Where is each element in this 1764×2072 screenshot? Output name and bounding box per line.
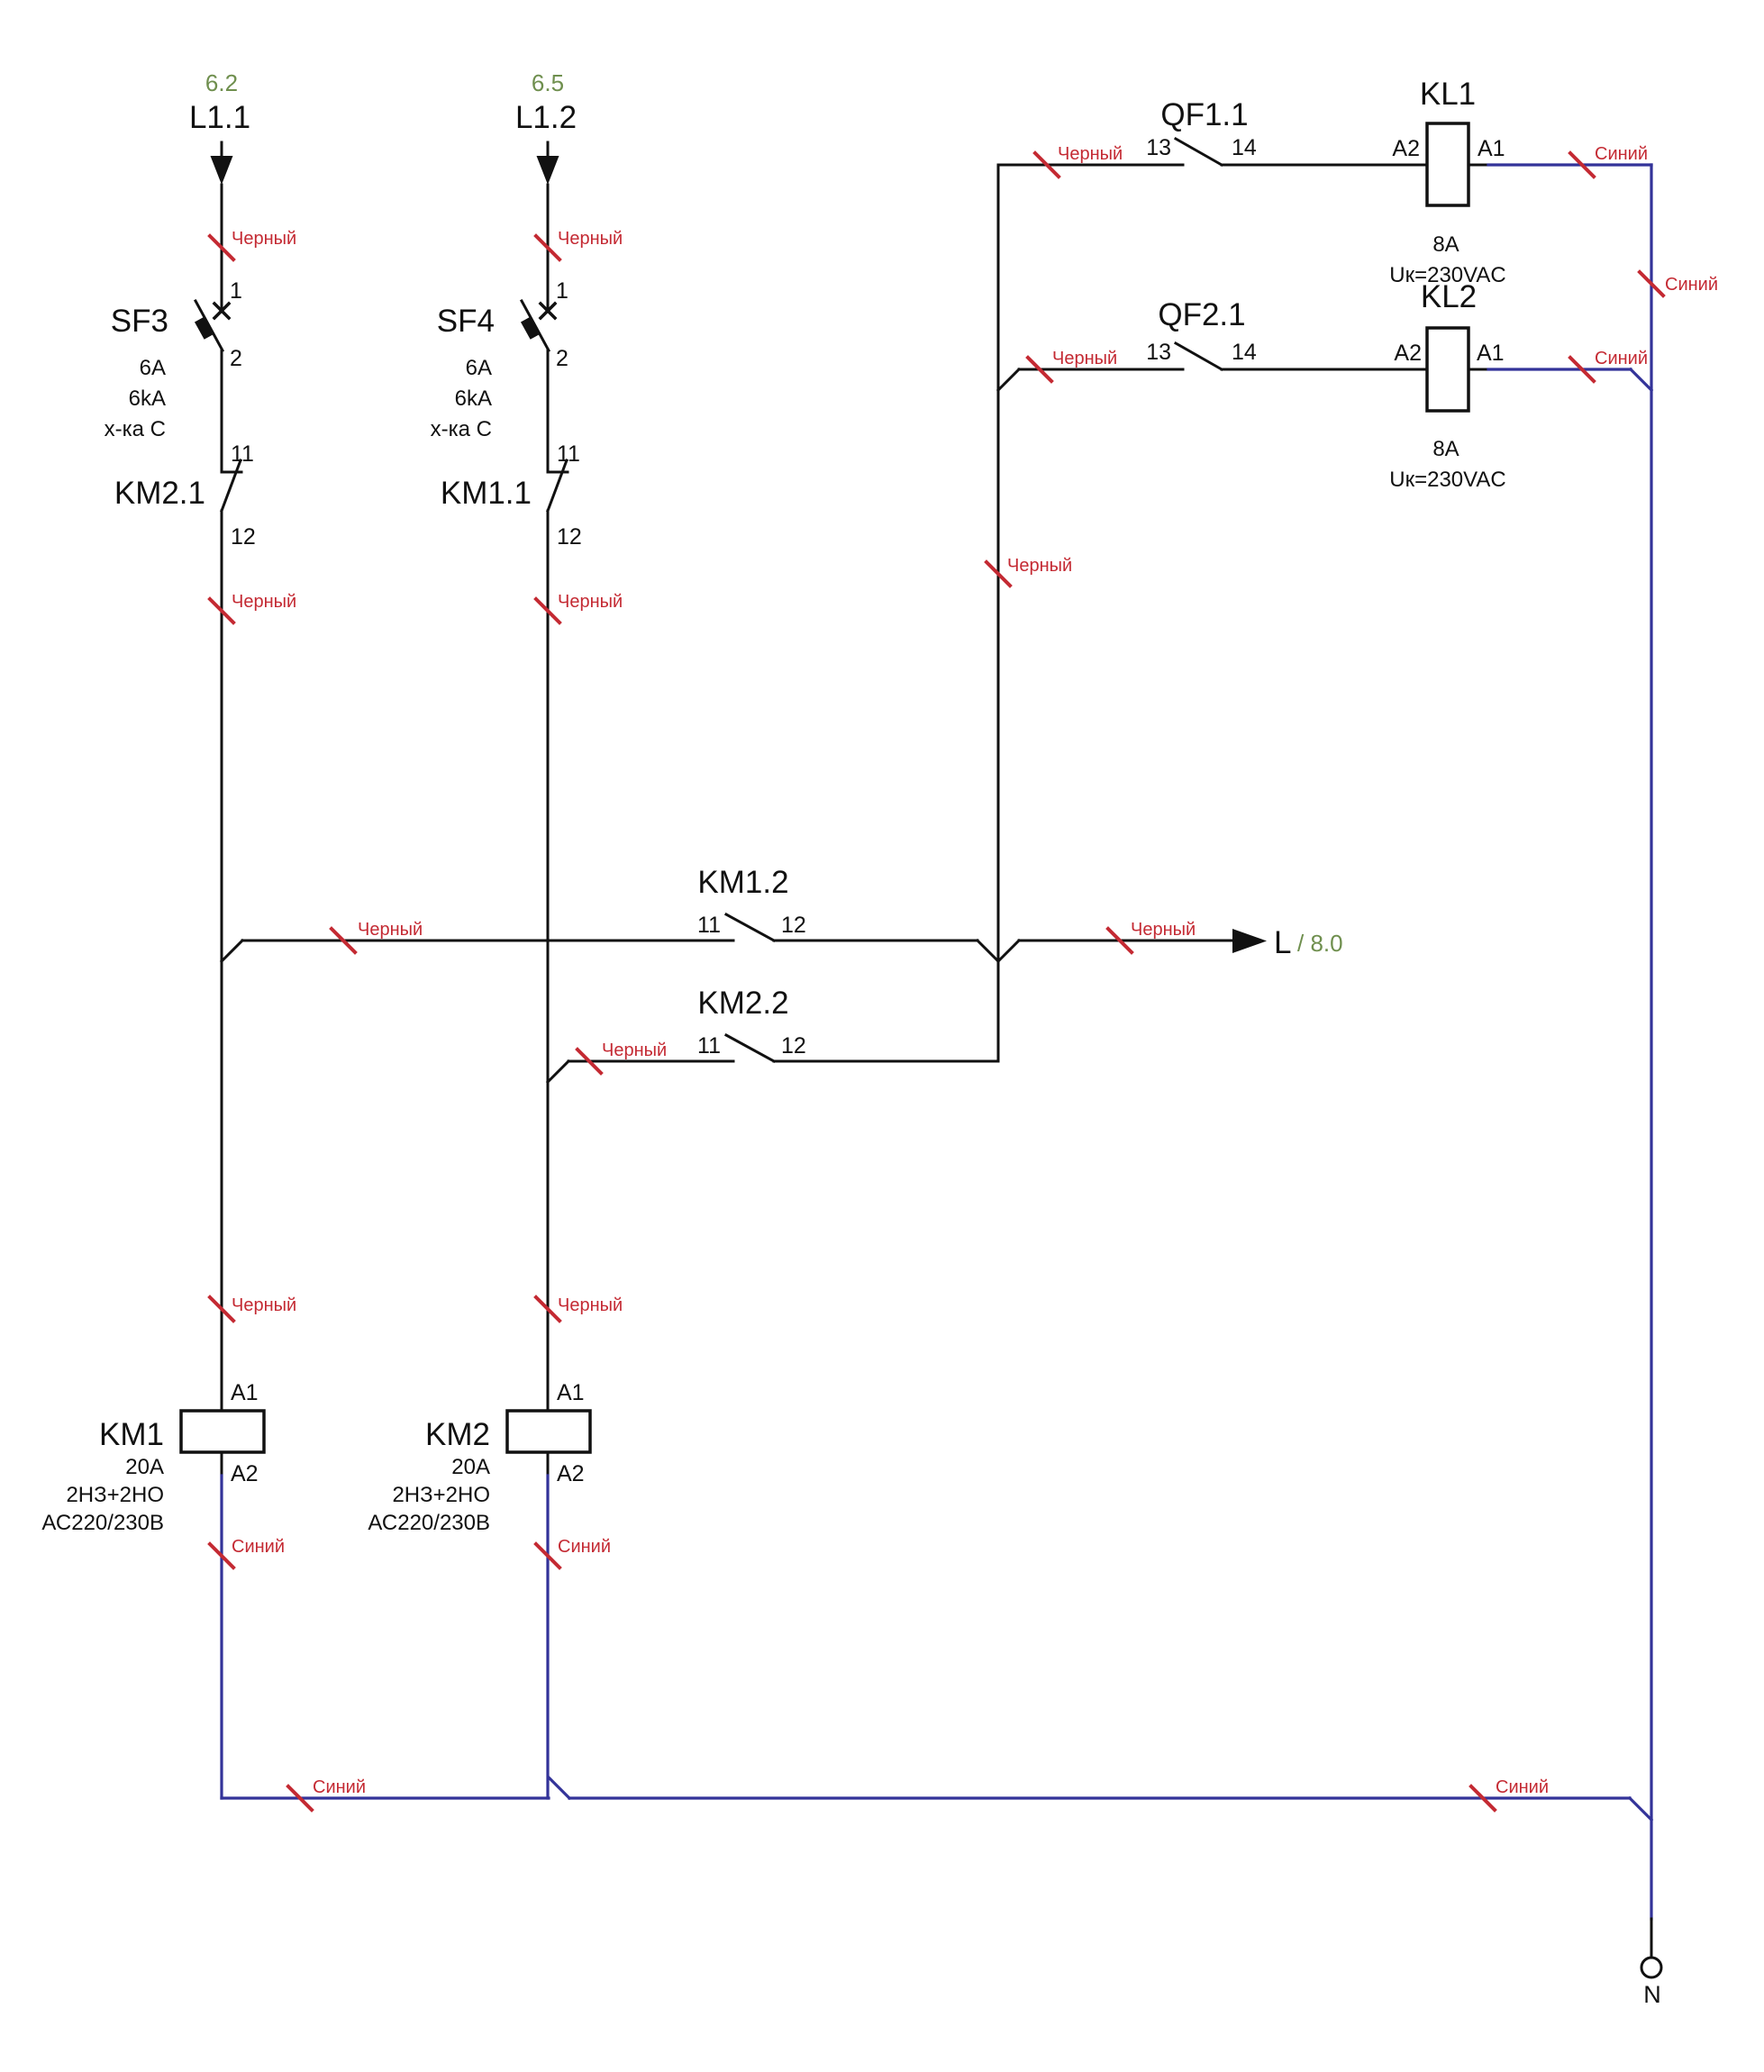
wire marker Черный (above KM2 coil)	[536, 1295, 623, 1321]
circuit breaker SF3	[195, 301, 229, 350]
NC contact KM2.1	[222, 460, 241, 511]
svg-text:6kA: 6kA	[455, 386, 492, 411]
value labels KL1	[1389, 232, 1505, 287]
wire marker Черный (KM2.2 left)	[577, 1041, 667, 1073]
svg-text:Синий: Синий	[1595, 144, 1648, 164]
wire KM1.1 down to KM2 coil	[547, 511, 550, 1411]
N bus left segment (blue)	[222, 1796, 549, 1799]
wire junction branch2 to KM2.2	[548, 1061, 568, 1082]
wire marker Черный (above KM1 coil)	[210, 1295, 296, 1321]
svg-text:A2: A2	[1392, 136, 1420, 161]
svg-text:A2: A2	[1394, 341, 1422, 366]
svg-text:A1: A1	[231, 1380, 259, 1405]
svg-text:A1: A1	[1478, 136, 1505, 161]
value labels SF3	[105, 356, 166, 441]
wire KM2.2 left segment	[568, 1060, 733, 1063]
N terminal circle	[1641, 1958, 1661, 1977]
value labels KM2	[368, 1455, 490, 1535]
value labels KL2	[1389, 437, 1505, 492]
svg-text:A2: A2	[231, 1461, 259, 1486]
svg-text:/ 8.0: / 8.0	[1297, 930, 1343, 957]
svg-text:A2: A2	[557, 1461, 585, 1486]
svg-text:12: 12	[231, 524, 256, 550]
svg-text:Черный: Черный	[232, 592, 296, 612]
circuit breaker SF4	[521, 301, 555, 350]
svg-text:6A: 6A	[466, 356, 492, 380]
svg-text:Черный: Черный	[1058, 144, 1123, 164]
svg-text:Черный: Черный	[1052, 349, 1117, 368]
svg-text:12: 12	[781, 1033, 806, 1059]
svg-text:Синий: Синий	[558, 1537, 611, 1557]
svg-text:Синий: Синий	[1665, 275, 1718, 295]
svg-text:Черный: Черный	[558, 1295, 623, 1315]
svg-text:6.2: 6.2	[205, 69, 238, 96]
svg-text:1: 1	[230, 278, 242, 304]
N terminal stub	[1650, 1919, 1653, 1957]
svg-text:11: 11	[231, 441, 254, 467]
wire L1.1 down to SF3	[221, 185, 223, 312]
wire QF2.1 to KL2	[1222, 368, 1427, 371]
NO contact KM2.2	[726, 1035, 774, 1061]
svg-text:N: N	[1643, 1981, 1661, 2008]
svg-text:QF2.1: QF2.1	[1158, 297, 1245, 332]
svg-text:Черный: Черный	[232, 1295, 296, 1315]
source arrow L1.1	[211, 142, 233, 185]
NC contact KM1.1	[548, 460, 568, 511]
wire marker Черный (KM1.2 left)	[332, 920, 423, 952]
wire junction branch1 to KM1.2	[222, 941, 242, 961]
svg-text:Синий: Синий	[232, 1537, 285, 1557]
svg-text:8A: 8A	[1432, 232, 1459, 257]
wire KM1.2 left segment	[242, 940, 733, 942]
svg-text:KL1: KL1	[1420, 77, 1476, 112]
svg-text:KM2.2: KM2.2	[697, 986, 788, 1021]
svg-text:6kA: 6kA	[129, 386, 166, 411]
NO contact KM1.2	[726, 914, 774, 941]
NO contact QF2.1	[1176, 343, 1222, 369]
svg-text:14: 14	[1232, 340, 1257, 365]
svg-text:Синий: Синий	[313, 1777, 366, 1797]
wire junction QF feed to QF2.1	[998, 369, 1019, 390]
svg-text:20A: 20A	[125, 1455, 164, 1479]
svg-text:Черный: Черный	[232, 229, 296, 249]
wire QF2.1 row left	[1019, 368, 1183, 371]
wire marker Синий (N riser)	[1640, 272, 1718, 295]
svg-text:Черный: Черный	[1131, 920, 1196, 940]
svg-text:АС220/230В: АС220/230В	[41, 1511, 164, 1535]
wire SF4 to KM1.1	[547, 350, 550, 472]
svg-text:13: 13	[1146, 340, 1171, 365]
wire KL1 to N riser (blue)	[1488, 163, 1651, 166]
wire to L output	[1019, 940, 1232, 942]
svg-text:12: 12	[557, 524, 582, 550]
svg-text:KM1: KM1	[99, 1417, 164, 1452]
svg-text:A1: A1	[1477, 341, 1505, 366]
wire marker Черный (mid branch 2)	[536, 592, 623, 623]
wire marker Черный (L1.1 top)	[210, 229, 296, 259]
svg-text:QF1.1: QF1.1	[1160, 97, 1248, 132]
svg-text:АС220/230В: АС220/230В	[368, 1511, 490, 1535]
svg-text:14: 14	[1232, 135, 1257, 160]
contactor coil KM2	[507, 1411, 590, 1452]
value labels SF4	[431, 356, 492, 441]
svg-text:Черный: Черный	[1007, 556, 1072, 576]
wire L1.2 down to SF4	[547, 185, 550, 312]
svg-text:1: 1	[556, 278, 568, 304]
wire marker Черный (mid branch 1)	[210, 592, 296, 623]
wire marker Синий (N bus left)	[288, 1777, 366, 1810]
wire N riser (blue)	[1650, 165, 1652, 1919]
svg-text:Синий: Синий	[1496, 1777, 1549, 1797]
wire marker Черный (L output)	[1108, 920, 1196, 952]
svg-text:A1: A1	[557, 1380, 585, 1405]
value labels KM1	[41, 1455, 164, 1535]
svg-text:2: 2	[230, 346, 242, 371]
N bus right segment (blue)	[569, 1796, 1630, 1799]
relay coil KL2	[1427, 328, 1468, 411]
wire QF1.1 row left	[998, 164, 1183, 167]
wire KM1.2 right segment	[774, 940, 977, 942]
svg-text:Черный: Черный	[558, 592, 623, 612]
wire marker Синий (below KM2)	[536, 1537, 611, 1568]
wire marker Черный (QF2.1 row)	[1028, 349, 1117, 381]
wire KM1 to N bus (blue)	[220, 1476, 223, 1798]
wire marker Синий (KL2 row)	[1570, 349, 1648, 381]
wire marker Черный (L1.2 top)	[536, 229, 623, 259]
svg-text:SF4: SF4	[437, 304, 495, 339]
svg-text:KL2: KL2	[1421, 279, 1477, 314]
svg-text:Черный: Черный	[358, 920, 423, 940]
wire KM2.1 down to KM1 coil	[221, 511, 223, 1411]
node junction (KM1.2 / KM2.2 / QF feed)	[977, 941, 1019, 961]
wire marker Синий (below KM1)	[210, 1537, 285, 1568]
svg-text:6A: 6A	[140, 356, 166, 380]
svg-text:L: L	[1274, 925, 1291, 960]
svg-text:KM2: KM2	[425, 1417, 490, 1452]
svg-text:Синий: Синий	[1595, 349, 1648, 368]
wire KM2 A2 stub	[547, 1452, 550, 1476]
svg-text:2НЗ+2НО: 2НЗ+2НО	[392, 1483, 490, 1507]
svg-text:20A: 20A	[451, 1455, 490, 1479]
wire KL2 A1 stub	[1468, 368, 1488, 371]
svg-text:KM1.2: KM1.2	[697, 865, 788, 900]
junction KM2 branch to N bus	[549, 1777, 569, 1798]
svg-text:х-ка С: х-ка С	[105, 417, 166, 441]
svg-text:Uк=230VAC: Uк=230VAC	[1389, 468, 1505, 492]
svg-text:Черный: Черный	[602, 1041, 667, 1060]
svg-text:х-ка С: х-ка С	[431, 417, 492, 441]
wire KM2.2 up to junction	[997, 961, 1000, 1061]
contactor coil KM1	[181, 1411, 264, 1452]
svg-text:11: 11	[697, 1033, 721, 1059]
svg-text:L1.1: L1.1	[189, 100, 250, 135]
junction N bus to N riser	[1630, 1798, 1651, 1820]
relay coil KL1	[1427, 123, 1468, 205]
wire marker Синий (KL1 row)	[1570, 144, 1648, 177]
NO contact QF1.1	[1176, 139, 1222, 165]
wire KL2 to N riser (blue)	[1488, 369, 1651, 390]
svg-text:2НЗ+2НО: 2НЗ+2НО	[66, 1483, 164, 1507]
svg-text:13: 13	[1146, 135, 1171, 160]
svg-text:12: 12	[781, 913, 806, 938]
wire marker Черный (QF1.1 row)	[1035, 144, 1123, 177]
svg-text:2: 2	[556, 346, 568, 371]
svg-text:11: 11	[557, 441, 580, 467]
wire marker Черный (QF feed)	[987, 556, 1072, 586]
wire QF1.1 to KL1	[1222, 164, 1427, 167]
output arrow L	[1232, 929, 1267, 953]
svg-text:11: 11	[697, 913, 721, 938]
wire marker Синий (N bus right)	[1471, 1777, 1549, 1810]
svg-text:KM2.1: KM2.1	[114, 476, 205, 511]
svg-text:8A: 8A	[1432, 437, 1459, 461]
wire QF feed vertical	[997, 165, 1000, 961]
wire KL1 A1 stub	[1468, 164, 1488, 167]
svg-text:6.5: 6.5	[532, 69, 564, 96]
svg-text:KM1.1: KM1.1	[441, 476, 532, 511]
wire SF3 to KM2.1	[221, 350, 223, 472]
svg-text:SF3: SF3	[111, 304, 168, 339]
wire KM2 to N bus (blue)	[546, 1476, 549, 1798]
source arrow L1.2	[537, 142, 559, 185]
svg-text:L1.2: L1.2	[515, 100, 577, 135]
svg-text:Черный: Черный	[558, 229, 623, 249]
wire KM2.2 right segment	[774, 1060, 998, 1063]
wire KM1 A2 stub	[221, 1452, 223, 1476]
